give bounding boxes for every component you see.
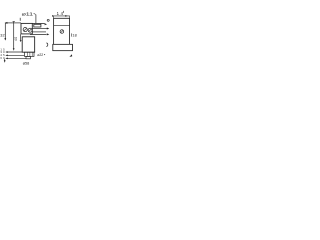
- tab line left of body: [20, 34, 22, 40]
- port slash: [61, 30, 64, 33]
- svg-text:40: 40: [14, 37, 18, 41]
- stacked dim line 3: [6, 57, 26, 59]
- dim 18 tick: [71, 33, 73, 36]
- right view inner line: [54, 24, 70, 26]
- vertical dim line B: [13, 22, 15, 49]
- svg-text:⌀58: ⌀58: [23, 61, 30, 66]
- dim 14 arrow right: [65, 15, 67, 17]
- leader arrow bottom right: [69, 54, 72, 57]
- dim 14 text: [57, 11, 64, 16]
- collar rib 1: [26, 52, 28, 56]
- witness tick top-left: [19, 18, 21, 21]
- stub line 3: [30, 34, 47, 36]
- witness tick right: [69, 16, 71, 19]
- tiny text tail: [44, 54, 45, 55]
- arrow blob right of top line: [45, 23, 47, 25]
- slash circle 2: [29, 29, 32, 32]
- arrow A bottom: [4, 38, 6, 41]
- stub line 1: [32, 28, 47, 30]
- label 32: [0, 34, 4, 38]
- inlet circle 1: [23, 28, 27, 32]
- label D58: [23, 61, 30, 66]
- dim line upper-left: [5, 22, 21, 24]
- svg-text:18: 18: [72, 34, 76, 38]
- witness tick left: [53, 16, 55, 19]
- bottom small dim line: [4, 59, 6, 61]
- leader tick: [34, 13, 36, 14]
- svg-text:⌀11: ⌀11: [22, 12, 34, 17]
- inlet circle 2: [28, 28, 32, 32]
- side view body: [22, 37, 34, 52]
- collar rib 3: [31, 52, 33, 56]
- leader line from D11: [35, 15, 37, 24]
- dim 18 text: [72, 34, 76, 38]
- stacked arrow 2: [5, 55, 7, 57]
- knob arc left of flange: [46, 43, 47, 47]
- svg-text:32: 32: [0, 34, 4, 38]
- flange rect: [53, 44, 73, 50]
- svg-text:14: 14: [57, 11, 64, 16]
- bottom down arrow: [4, 60, 6, 63]
- stacked arrow 3: [5, 58, 7, 60]
- dim 14 line: [53, 15, 70, 17]
- front view box: [21, 23, 32, 34]
- stub line 2: [32, 31, 46, 33]
- stacked arrow 1: [5, 51, 7, 53]
- dim 14 arrow left: [52, 15, 53, 17]
- tab arrow: [20, 40, 22, 42]
- terminal small rect: [34, 24, 41, 27]
- vertical dim line A: [4, 23, 6, 40]
- tick B top: [13, 21, 15, 23]
- right view outline: [54, 18, 70, 44]
- stacked dim line 1: [6, 51, 22, 53]
- small stub circle: [47, 19, 49, 21]
- stub arrow 1: [47, 28, 50, 30]
- stub arrow 3: [47, 33, 50, 35]
- label right of stem: [37, 53, 43, 57]
- slash circle 1: [24, 28, 27, 31]
- dim 14 sup tick: [62, 11, 64, 13]
- svg-text:⌀22: ⌀22: [37, 53, 43, 57]
- top extension line: [32, 22, 44, 24]
- arrow B bottom: [13, 48, 15, 51]
- label near B rotated: [14, 37, 18, 41]
- stacked dim line 2: [6, 54, 25, 56]
- arrowhead upper-left: [5, 22, 8, 24]
- dim label D11: [22, 12, 34, 17]
- port circle: [60, 30, 64, 34]
- collar rib 2: [29, 52, 31, 56]
- stacked dim labels column: [0, 47, 5, 59]
- lower stub rect: [26, 56, 30, 58]
- collar below body: [25, 52, 35, 56]
